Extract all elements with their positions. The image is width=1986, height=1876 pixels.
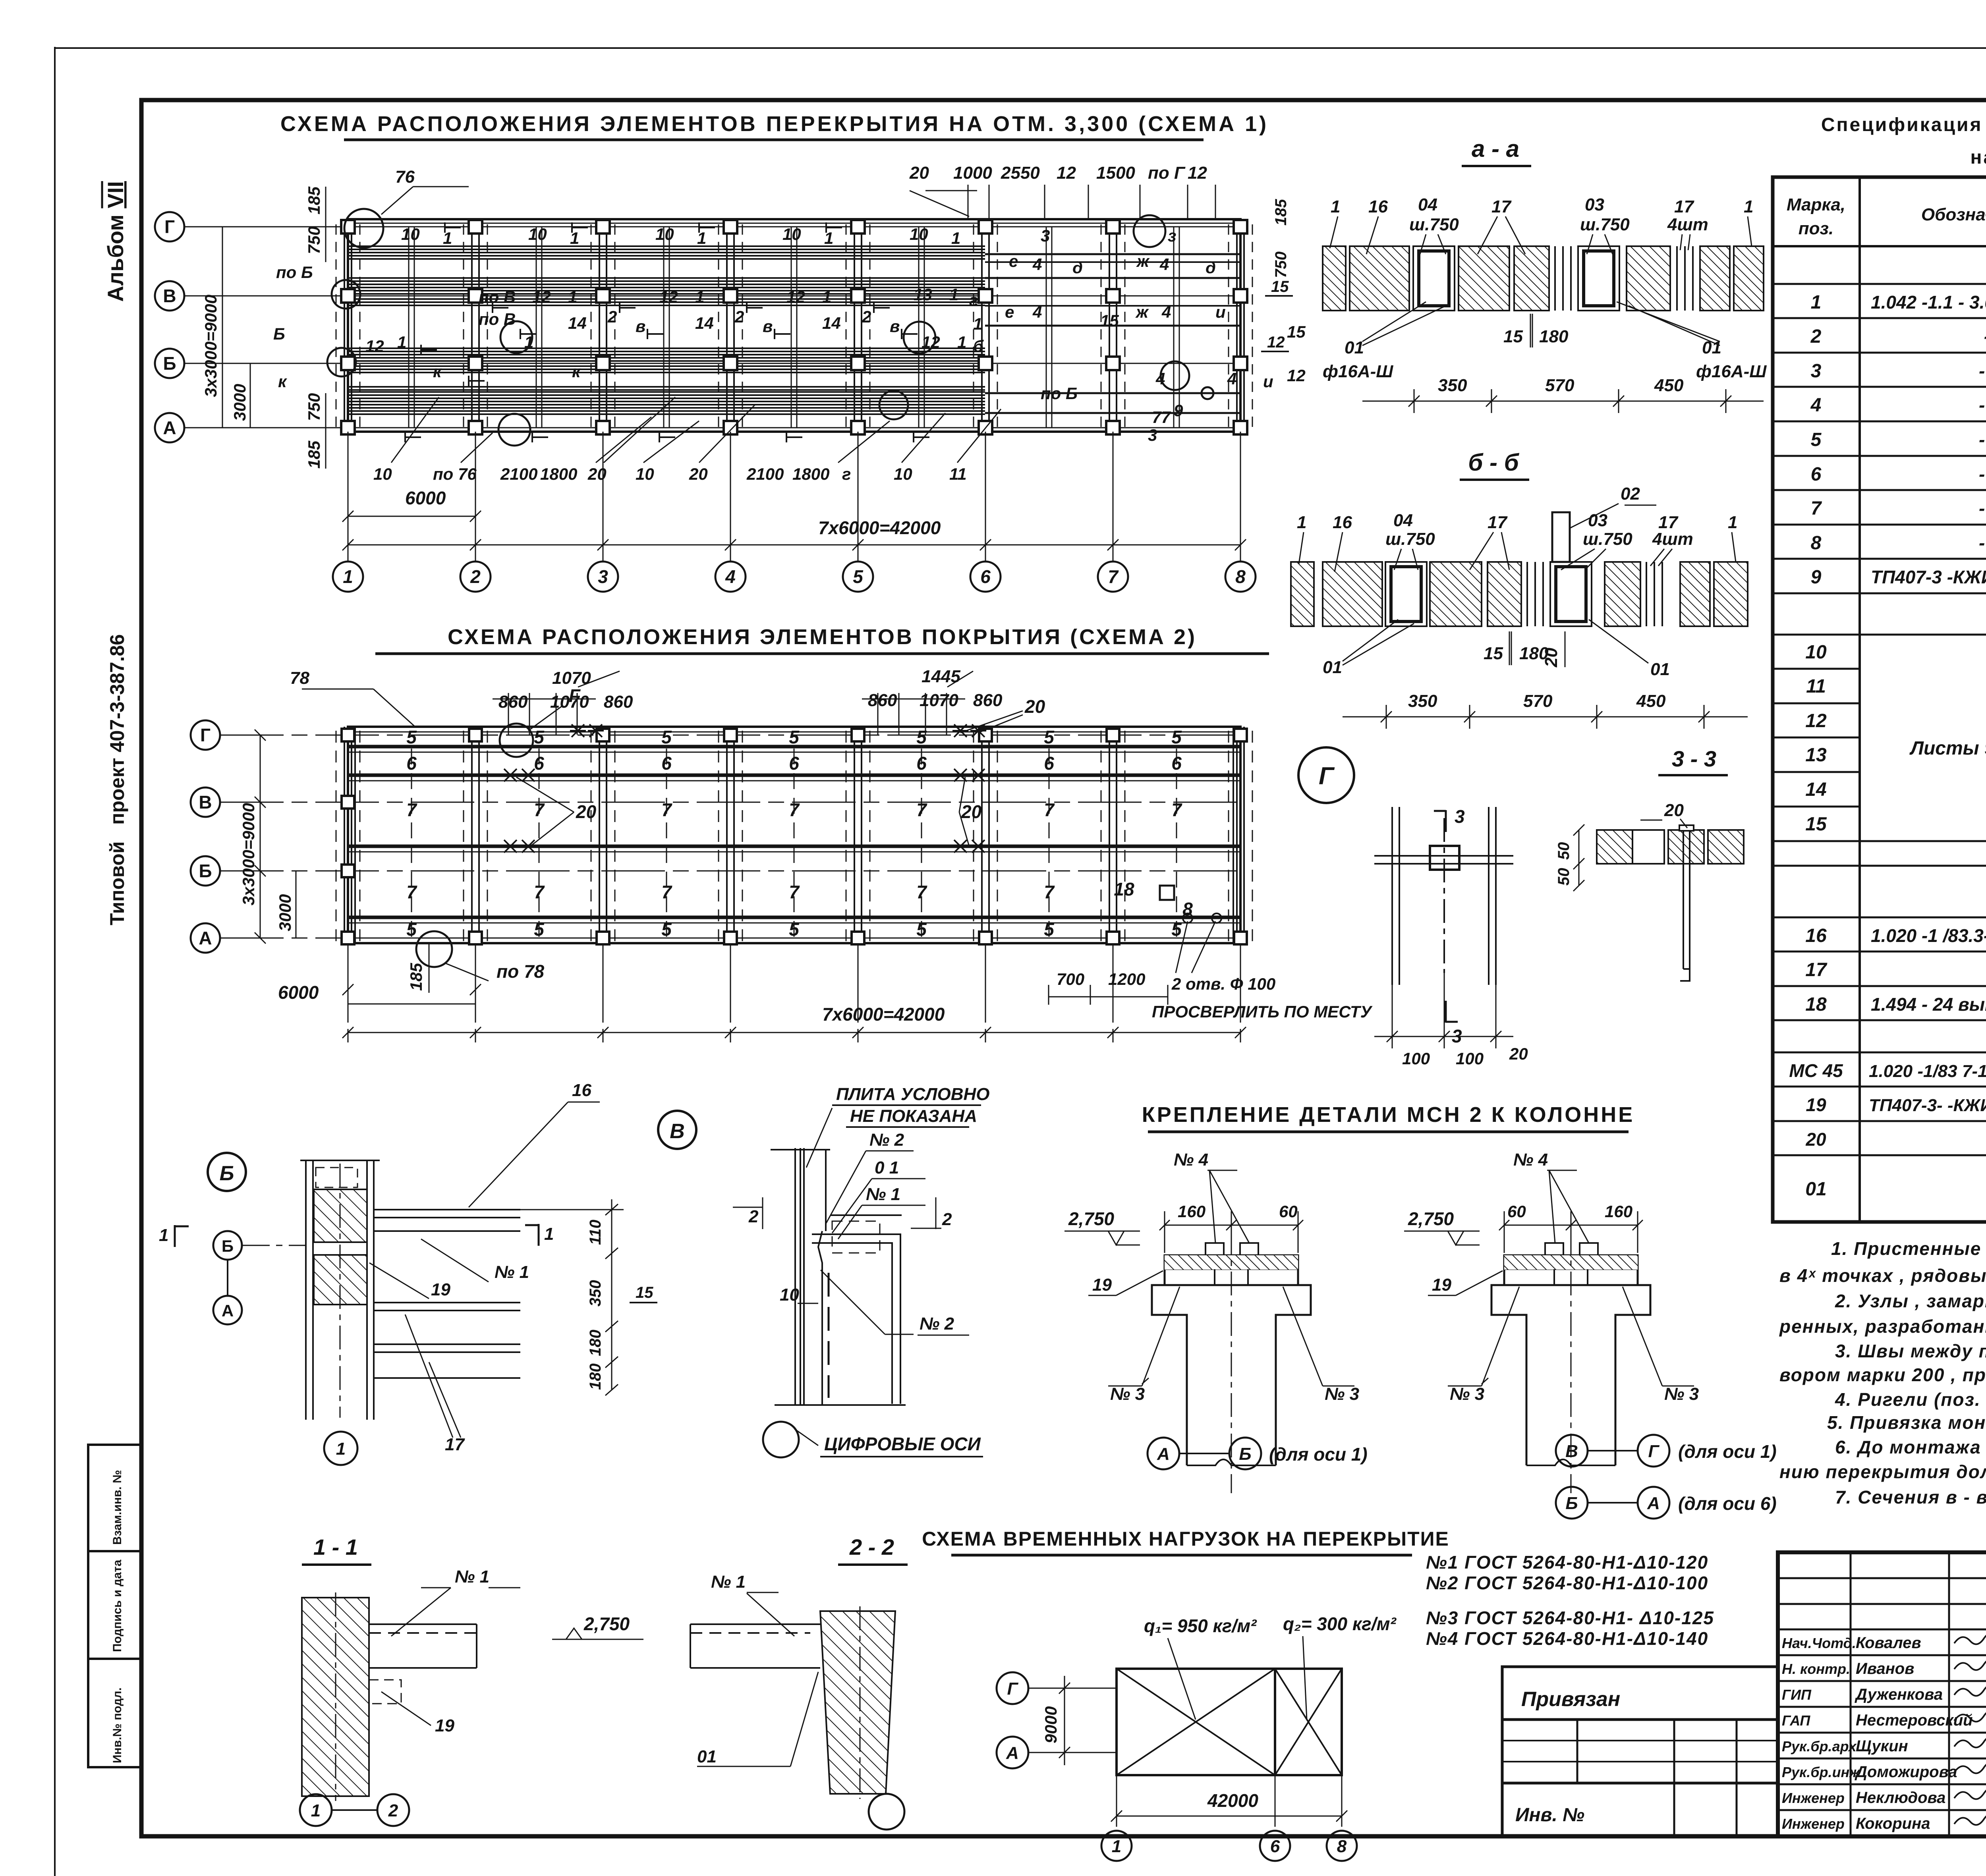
svg-text:7: 7 — [916, 799, 927, 820]
table row lines — [1773, 284, 1986, 1155]
svg-text:А: А — [199, 928, 212, 948]
node V label circle — [658, 1111, 696, 1149]
svg-text:Альбом VII: Альбом VII — [103, 181, 128, 302]
svg-text:10: 10 — [401, 225, 420, 243]
svg-text:2: 2 — [734, 307, 744, 326]
svg-text:Спецификация к схемам распо: Спецификация к схемам расположения элеме… — [1821, 114, 1986, 135]
svg-text:5: 5 — [789, 919, 800, 940]
svg-text:6: 6 — [1171, 753, 1182, 774]
svg-text:- 2.00.0 - 01: - 2.00.0 - 01 — [1979, 464, 1986, 484]
svg-text:1: 1 — [1811, 292, 1822, 313]
svg-text:Б: Б — [220, 1162, 234, 1185]
table header texts — [1787, 189, 1986, 244]
svg-text:1.020 -1 /83.3-1 17: 1.020 -1 /83.3-1 17 — [1871, 925, 1986, 946]
svg-text:6: 6 — [1270, 1837, 1280, 1856]
section a-a narrow plates — [1555, 246, 1693, 311]
svg-text:ж: ж — [1136, 252, 1150, 270]
svg-text:7: 7 — [1171, 799, 1182, 820]
svg-text:6: 6 — [916, 753, 927, 774]
load scheme dim 42000 — [1111, 1775, 1347, 1827]
svg-text:18: 18 — [1805, 994, 1827, 1015]
svg-text:2: 2 — [388, 1801, 398, 1820]
svg-text:110: 110 — [587, 1220, 604, 1245]
scheme 2 top dims — [290, 667, 1003, 712]
svg-text:Г: Г — [1319, 762, 1335, 790]
svg-text:1.020 -1/83 7-1 120: 1.020 -1/83 7-1 120 — [1869, 1062, 1986, 1081]
svg-text:15: 15 — [1503, 327, 1523, 346]
scheme 1 top dimension labels — [395, 163, 1207, 187]
svg-text:1: 1 — [524, 333, 533, 351]
svg-text:03: 03 — [1585, 195, 1604, 214]
svg-text:5: 5 — [661, 919, 672, 940]
node V column lines — [771, 1148, 830, 1405]
svg-text:Взам.инв. №: Взам.инв. № — [111, 1470, 124, 1545]
svg-text:к: к — [278, 372, 287, 391]
svg-text:НЕ ПОКАЗАНА: НЕ ПОКАЗАНА — [850, 1106, 977, 1126]
svg-text:СХЕМА ВРЕМЕННЫХ НАГРУЗОК НА: СХЕМА ВРЕМЕННЫХ НАГРУЗОК НА ПЕРЕКРЫТИЕ — [922, 1528, 1449, 1550]
scheme 1 column squares — [341, 220, 1247, 434]
title block signature grid — [1778, 1552, 1986, 1836]
svg-text:Привязан: Привязан — [1521, 1688, 1620, 1711]
svg-text:1: 1 — [311, 1801, 321, 1820]
svg-text:60: 60 — [1507, 1202, 1526, 1221]
svg-text:- 3,00.0 - 03: - 3,00.0 - 03 — [1979, 361, 1986, 381]
svg-text:78: 78 — [290, 668, 309, 688]
scheme 1 column verticals — [336, 219, 1252, 432]
svg-text:1800: 1800 — [540, 465, 577, 483]
svg-text:01: 01 — [1323, 658, 1342, 677]
svg-text:1: 1 — [343, 566, 353, 587]
svg-text:76: 76 — [395, 167, 415, 187]
svg-text:5: 5 — [661, 727, 672, 747]
svg-text:ГИП: ГИП — [1782, 1687, 1812, 1703]
scheme 2 star joint marks — [502, 724, 986, 853]
svg-text:№ 3: № 3 — [1110, 1384, 1145, 1404]
svg-text:1.042 -1.1 - 3.00.0 -13: 1.042 -1.1 - 3.00.0 -13 — [1871, 292, 1986, 313]
svg-text:В: В — [199, 792, 212, 813]
svg-text:1: 1 — [949, 285, 958, 304]
scheme 2 G node circle — [500, 724, 533, 757]
left bottom stamp table — [88, 1445, 141, 1767]
svg-text:№ 4: № 4 — [1174, 1150, 1208, 1170]
svg-text:2 - 2: 2 - 2 — [849, 1534, 894, 1559]
svg-text:и: и — [1263, 372, 1273, 391]
svg-text:Ковалев: Ковалев — [1856, 1634, 1921, 1652]
svg-text:16: 16 — [1368, 197, 1388, 216]
svg-text:3: 3 — [1811, 361, 1822, 382]
svg-text:2 отв. Ф 100: 2 отв. Ф 100 — [1171, 975, 1275, 993]
svg-text:3: 3 — [1148, 426, 1157, 444]
MCH2 axis ref circles left — [1148, 1438, 1261, 1469]
svg-text:5: 5 — [406, 727, 417, 747]
svg-text:8: 8 — [1235, 566, 1246, 587]
svg-text:Г: Г — [1007, 1679, 1018, 1698]
svg-text:2: 2 — [748, 1207, 759, 1226]
svg-text:7: 7 — [789, 799, 800, 820]
svg-text:ф16А-Ш: ф16А-Ш — [1696, 362, 1767, 381]
svg-text:570: 570 — [1545, 376, 1575, 395]
svg-text:5: 5 — [406, 919, 417, 940]
signatures squiggles — [1954, 1633, 1986, 1825]
section a-a left dims — [1267, 199, 1290, 351]
scheme 1 bottom dim 42000 — [342, 432, 1246, 562]
svg-text:185: 185 — [407, 963, 425, 991]
svg-text:Обозначение: Обозначение — [1921, 205, 1986, 224]
svg-text:по Б: по Б — [1041, 384, 1078, 403]
scheme 2 right bottom dims — [1057, 970, 1373, 1021]
svg-text:02: 02 — [1621, 484, 1640, 504]
svg-text:7х6000=42000: 7х6000=42000 — [818, 517, 941, 538]
section a-a rigel frames — [1413, 246, 1619, 311]
section b-b hatched plate blocks — [1291, 562, 1748, 626]
svg-text:Н. контр.: Н. контр. — [1782, 1661, 1850, 1677]
svg-text:Б: Б — [1565, 1494, 1578, 1513]
svg-text:6000: 6000 — [278, 982, 319, 1003]
svg-text:Б: Б — [199, 861, 212, 881]
svg-text:ж: ж — [1135, 303, 1149, 321]
GOST weld list — [1426, 1552, 1714, 1649]
svg-text:1800: 1800 — [792, 465, 829, 483]
svg-text:Инв. №: Инв. № — [1515, 1805, 1584, 1826]
detail 1-1 wall hatched — [302, 1598, 369, 1796]
svg-text:по Г: по Г — [1148, 163, 1186, 183]
svg-text:4: 4 — [1161, 303, 1171, 321]
svg-text:В: В — [670, 1120, 685, 1143]
svg-text:2: 2 — [862, 307, 871, 326]
node G bottom dims 100 100 20 — [1374, 953, 1513, 1048]
svg-text:10: 10 — [373, 465, 392, 483]
svg-text:№ 4: № 4 — [1513, 1150, 1548, 1170]
notes block — [1779, 1238, 1986, 1507]
svg-text:10: 10 — [782, 225, 801, 243]
scheme 2 po 78 leader — [416, 931, 452, 967]
sheet outer top trim line — [55, 47, 1986, 49]
svg-text:860: 860 — [498, 692, 528, 712]
node V plate rect — [775, 1215, 906, 1405]
svg-text:7: 7 — [534, 799, 545, 820]
svg-text:01: 01 — [1650, 660, 1670, 679]
detail 1-1 axis circles — [300, 1794, 332, 1826]
svg-text:нию перекрытия должны бы: нию перекрытия должны быть закончены. — [1779, 1461, 1986, 1482]
svg-text:700: 700 — [1057, 970, 1084, 988]
scheme 2 rigel lines — [348, 747, 1240, 917]
svg-text:2,750: 2,750 — [583, 1614, 630, 1634]
svg-text:19: 19 — [1432, 1275, 1451, 1295]
svg-text:№ 3: № 3 — [1664, 1384, 1699, 1404]
svg-text:ф16А-Ш: ф16А-Ш — [1323, 362, 1393, 381]
svg-text:1: 1 — [397, 333, 406, 351]
svg-text:17: 17 — [1805, 959, 1828, 980]
section b-b bottom labels — [1323, 644, 1670, 711]
svg-text:поз.: поз. — [1799, 219, 1833, 238]
svg-text:4шт: 4шт — [1652, 529, 1693, 549]
svg-text:А: А — [1647, 1494, 1660, 1513]
svg-text:7. Сечения в - в , г - г , е: 7. Сечения в - в , г - г , е - е ... л -… — [1835, 1487, 1986, 1507]
svg-text:860: 860 — [973, 691, 1003, 710]
svg-text:14: 14 — [822, 314, 841, 332]
svg-text:ш.750: ш.750 — [1385, 529, 1435, 549]
node G section marks 3 — [1434, 810, 1458, 1023]
svg-text:№4 ГОСТ 5264-80-Н1-Δ10-140: №4 ГОСТ 5264-80-Н1-Δ10-140 — [1426, 1628, 1708, 1649]
svg-text:12: 12 — [1057, 163, 1076, 183]
svg-text:1: 1 — [822, 288, 831, 306]
svg-text:б - б: б - б — [1468, 449, 1519, 476]
svg-text:в 4ˣ точках , рядовые - в: в 4ˣ точках , рядовые - в 2ˣ точках . — [1779, 1265, 1986, 1286]
svg-text:20: 20 — [1805, 1129, 1826, 1150]
svg-text:6: 6 — [980, 566, 991, 587]
svg-text:Б: Б — [163, 353, 176, 374]
scheme 1 title — [280, 112, 1269, 140]
section b-b rigel frames — [1385, 562, 1592, 626]
svg-text:- 3.00.0 - 01: - 3.00.0 - 01 — [1979, 429, 1986, 450]
svg-text:1: 1 — [695, 288, 704, 306]
svg-text:04: 04 — [1418, 195, 1437, 214]
svg-text:ЦИФРОВЫЕ ОСИ: ЦИФРОВЫЕ ОСИ — [824, 1434, 981, 1454]
svg-text:12: 12 — [365, 337, 384, 355]
scheme 2 axis circles — [191, 720, 220, 953]
svg-text:по 76: по 76 — [433, 465, 477, 483]
svg-text:3000: 3000 — [230, 384, 249, 421]
svg-text:з: з — [1168, 226, 1176, 245]
svg-text:10: 10 — [894, 465, 912, 483]
svg-text:Доможирова: Доможирова — [1855, 1763, 1957, 1781]
detail 1-1 plate — [369, 1624, 477, 1704]
svg-text:04: 04 — [1393, 511, 1413, 530]
svg-text:20: 20 — [1024, 696, 1045, 717]
svg-text:860: 860 — [868, 691, 897, 710]
svg-text:5: 5 — [916, 919, 927, 940]
svg-text:15: 15 — [1484, 644, 1503, 663]
svg-text:100: 100 — [1456, 1049, 1484, 1068]
svg-text:14: 14 — [568, 314, 587, 332]
svg-text:№2 ГОСТ 5264-80-Н1-Δ10-100: №2 ГОСТ 5264-80-Н1-Δ10-100 — [1426, 1573, 1708, 1593]
scheme 2 left dims — [255, 730, 296, 944]
svg-text:5: 5 — [534, 727, 545, 747]
svg-text:20: 20 — [576, 801, 597, 822]
svg-text:350: 350 — [587, 1280, 604, 1307]
svg-text:3: 3 — [1041, 226, 1050, 245]
svg-text:6: 6 — [1044, 753, 1054, 774]
svg-text:А: А — [222, 1301, 234, 1320]
svg-text:16: 16 — [572, 1081, 591, 1100]
svg-text:12: 12 — [1287, 366, 1306, 385]
svg-text:по 78: по 78 — [496, 961, 545, 982]
svg-text:В: В — [1565, 1442, 1578, 1461]
svg-text:10: 10 — [910, 225, 928, 243]
scheme 1 mid-bay ridgel verticals — [409, 227, 1179, 428]
svg-text:350: 350 — [1438, 376, 1467, 395]
svg-text:№ 1: № 1 — [495, 1262, 529, 1282]
svg-text:13: 13 — [1805, 745, 1827, 766]
svg-text:14: 14 — [695, 314, 714, 332]
svg-text:2: 2 — [942, 1210, 952, 1229]
svg-text:на отм 3.300 и элементов: на отм 3.300 и элементов покрытия — [1971, 147, 1986, 168]
node B dim chain — [520, 1199, 624, 1395]
scheme 1 interior labels — [273, 225, 1306, 483]
svg-text:а - а: а - а — [1472, 135, 1519, 162]
load scheme bottom circles — [1101, 1831, 1357, 1861]
svg-text:- 2.00.0 - 49: - 2.00.0 - 49 — [1979, 533, 1986, 553]
svg-text:5: 5 — [1044, 919, 1055, 940]
svg-text:2. Узлы , замаркированные на: 2. Узлы , замаркированные на данном лист… — [1835, 1291, 1986, 1311]
scheme 1 plan outline — [348, 219, 1240, 432]
svg-text:Нач.Чотд.: Нач.Чотд. — [1782, 1635, 1856, 1651]
scheme 1 axis lines — [184, 227, 1244, 428]
section b-b narrow plates — [1527, 562, 1662, 626]
svg-text:15: 15 — [636, 1284, 653, 1301]
svg-text:1: 1 — [1297, 513, 1306, 532]
svg-text:4шт: 4шт — [1667, 215, 1708, 234]
scheme 2 mid-bay plate joint dashed lines — [411, 749, 1177, 941]
svg-text:10: 10 — [636, 465, 654, 483]
svg-text:60: 60 — [1279, 1202, 1298, 1221]
svg-text:б: б — [973, 337, 984, 355]
svg-text:5. Привязка монолитных уча: 5. Привязка монолитных участков к осям д… — [1827, 1412, 1986, 1433]
MCH2 axis ref circles right — [1556, 1435, 1669, 1519]
svg-text:7: 7 — [406, 882, 417, 902]
svg-text:7: 7 — [1811, 498, 1822, 519]
svg-text:4: 4 — [1810, 395, 1822, 416]
svg-text:1500: 1500 — [1096, 163, 1135, 183]
scheme 1 axis circles — [155, 212, 184, 442]
svg-text:6: 6 — [406, 753, 417, 774]
svg-text:Б: Б — [222, 1237, 234, 1255]
svg-text:3 - 3: 3 - 3 — [1672, 746, 1716, 771]
svg-text:е: е — [1005, 303, 1014, 321]
svg-text:№ 3: № 3 — [1325, 1384, 1359, 1404]
svg-text:А: А — [1157, 1444, 1170, 1464]
scheme 2 axis lines — [220, 735, 1244, 938]
svg-text:6: 6 — [534, 753, 544, 774]
svg-text:14: 14 — [1805, 779, 1826, 800]
svg-text:2100: 2100 — [746, 465, 784, 483]
svg-text:г: г — [969, 291, 978, 309]
MCH2 column detail 2 — [1491, 1231, 1650, 1493]
svg-text:1445: 1445 — [922, 667, 960, 686]
svg-text:Рук.бр.арх: Рук.бр.арх — [1782, 1738, 1857, 1754]
svg-text:8: 8 — [1337, 1837, 1347, 1856]
svg-text:1: 1 — [544, 1224, 554, 1244]
svg-text:ТП407-3- -КЖИ- 40: ТП407-3- -КЖИ- 40 — [1869, 1096, 1986, 1115]
svg-text:185: 185 — [305, 440, 323, 469]
svg-text:Б: Б — [273, 324, 285, 343]
svg-text:3000: 3000 — [276, 894, 294, 931]
svg-text:10: 10 — [780, 1285, 799, 1305]
svg-text:ш.750: ш.750 — [1583, 529, 1632, 549]
section a-a bottom labels 01 — [1323, 327, 1767, 395]
svg-text:6: 6 — [1811, 464, 1822, 485]
svg-text:Дуженкова: Дуженкова — [1855, 1686, 1943, 1703]
svg-text:15: 15 — [1287, 322, 1306, 341]
svg-text:450: 450 — [1654, 376, 1684, 395]
svg-text:Кокорина: Кокорина — [1856, 1815, 1930, 1832]
svg-text:к: к — [433, 362, 442, 381]
svg-text:4. Ригели (поз. 16 , 17) за: 4. Ригели (поз. 16 , 17) замаркированы в… — [1835, 1389, 1986, 1410]
svg-text:12: 12 — [922, 333, 940, 351]
section a-a hatched plate blocks — [1323, 246, 1764, 311]
svg-text:1: 1 — [568, 288, 577, 306]
svg-text:по В: по В — [479, 310, 516, 328]
svg-text:1: 1 — [1112, 1837, 1121, 1856]
svg-text:15: 15 — [1271, 278, 1289, 295]
svg-text:5: 5 — [1171, 727, 1182, 747]
svg-text:№1 ГОСТ 5264-80-Н1-Δ10-120: №1 ГОСТ 5264-80-Н1-Δ10-120 — [1426, 1552, 1708, 1573]
svg-text:20: 20 — [1664, 801, 1684, 820]
svg-text:(для оси 1): (для оси 1) — [1269, 1444, 1368, 1465]
svg-text:А: А — [1006, 1743, 1019, 1763]
svg-text:20: 20 — [1542, 648, 1561, 668]
svg-text:д: д — [1072, 258, 1083, 277]
svg-text:12: 12 — [532, 288, 551, 306]
svg-text:6: 6 — [661, 753, 672, 774]
svg-text:20: 20 — [587, 465, 607, 483]
scheme 1 plate lines band G-V — [348, 246, 1240, 414]
node B plates — [374, 1210, 520, 1378]
svg-text:750: 750 — [305, 393, 323, 421]
svg-text:12: 12 — [786, 288, 805, 306]
svg-text:2: 2 — [607, 307, 617, 326]
svg-text:КРЕПЛЕНИЕ ДЕТАЛИ МСН 2 К К: КРЕПЛЕНИЕ ДЕТАЛИ МСН 2 К КОЛОННЕ — [1142, 1103, 1634, 1127]
svg-text:12: 12 — [1805, 710, 1827, 731]
svg-text:570: 570 — [1523, 691, 1553, 711]
detail 2-2 plate — [690, 1624, 820, 1668]
svg-text:5: 5 — [853, 566, 864, 587]
svg-text:1. Пристенные плиты (поз. 1: 1. Пристенные плиты (поз. 1, 3, 5) должн… — [1831, 1238, 1986, 1259]
svg-text:20: 20 — [961, 801, 982, 822]
node V bottom circle — [763, 1422, 799, 1457]
svg-text:Марка,: Марка, — [1787, 195, 1845, 214]
svg-text:СХЕМА РАСПОЛОЖЕНИЯ ЭЛЕМЕНТОВ: СХЕМА РАСПОЛОЖЕНИЯ ЭЛЕМЕНТОВ ПЕРЕКРЫТИЯ … — [280, 112, 1269, 136]
node G label circle — [1298, 747, 1354, 803]
svg-text:(для оси 6): (для оси 6) — [1678, 1493, 1777, 1514]
svg-text:4: 4 — [1155, 369, 1165, 388]
svg-text:11: 11 — [1806, 676, 1826, 697]
scheme 1 column circles 1-8 — [333, 562, 1256, 592]
svg-text:1: 1 — [1744, 197, 1753, 216]
svg-text:9000: 9000 — [1041, 1706, 1060, 1743]
svg-text:19: 19 — [1806, 1094, 1826, 1115]
svg-text:3: 3 — [1455, 806, 1465, 827]
node B wall — [300, 1160, 380, 1420]
svg-text:- 2.00.0 - 05: - 2.00.0 - 05 — [1979, 395, 1986, 415]
svg-text:9: 9 — [1811, 567, 1822, 588]
svg-text:q₂= 300 кг/м²: q₂= 300 кг/м² — [1283, 1614, 1397, 1634]
scheme 2 column squares — [342, 729, 1247, 944]
svg-text:1: 1 — [1728, 513, 1737, 532]
svg-text:17: 17 — [445, 1435, 465, 1454]
svg-text:2,750: 2,750 — [1408, 1208, 1454, 1229]
svg-text:г: г — [842, 465, 851, 483]
svg-text:Подпись и дата: Подпись и дата — [111, 1559, 124, 1652]
svg-text:№ 1: № 1 — [711, 1572, 746, 1592]
svg-text:180: 180 — [1539, 327, 1569, 346]
scheme 2 column verticals — [336, 727, 1252, 943]
node B label circle — [208, 1153, 246, 1191]
svg-text:4: 4 — [1227, 369, 1236, 388]
svg-text:42000: 42000 — [1207, 1790, 1258, 1811]
svg-text:7: 7 — [1044, 882, 1055, 902]
scheme 2 bottom dims — [342, 943, 1246, 1042]
svg-text:19: 19 — [1092, 1275, 1112, 1295]
svg-text:180: 180 — [587, 1363, 604, 1390]
svg-text:7: 7 — [789, 882, 800, 902]
svg-text:7: 7 — [661, 799, 672, 820]
section 3-3 detail — [1597, 825, 1744, 981]
node G detail — [1374, 807, 1513, 985]
svg-text:17: 17 — [1491, 197, 1512, 216]
svg-text:Листы 9, 10: Листы 9, 10 — [1909, 738, 1986, 759]
svg-text:6000: 6000 — [405, 488, 446, 508]
